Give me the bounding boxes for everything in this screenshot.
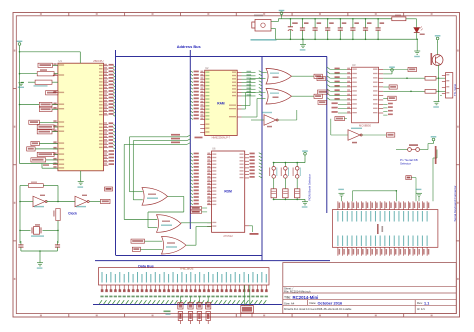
global label HALT <box>37 130 58 134</box>
ground above Pi connector left <box>338 189 344 202</box>
wires ACIA lower right address lines <box>383 103 393 115</box>
wires RAM data out to bus entries <box>242 71 263 96</box>
power symbol VCC at input <box>281 15 283 17</box>
svg-text:KiCad E.D.A. kicad 4.0.4+e1-6: KiCad E.D.A. kicad 4.0.4+e1-6308~38~ubun… <box>284 308 352 311</box>
svg-text:ROM: ROM <box>224 190 232 194</box>
wire VCC to CPU pin 11 <box>19 48 81 63</box>
wire ACIA TX top right <box>383 67 416 71</box>
svg-text:1.1: 1.1 <box>424 302 429 306</box>
labels D0-D7 ROM with bus entries <box>250 153 263 178</box>
global label WR <box>27 147 58 151</box>
connector P5 FTDI power <box>241 306 254 317</box>
global label M1 <box>29 120 58 124</box>
svg-text:U3: U3 <box>352 63 356 67</box>
wire ACIA RX to R5 <box>383 77 425 79</box>
wire U4C output loop to U4D <box>148 196 184 227</box>
global label WP below ACIA <box>335 117 347 121</box>
global label NMI <box>39 107 58 111</box>
bus: ring bottom <box>116 255 262 257</box>
resistor R3 reset pullup <box>19 69 58 76</box>
wire RAM OE <box>242 93 266 110</box>
svg-text:Rev:: Rev: <box>417 301 423 305</box>
ground left of reset circuit <box>18 82 24 88</box>
resistor R5 serial <box>425 76 446 80</box>
svg-text:ROM Bank Selector: ROM Bank Selector <box>307 174 311 201</box>
wire VCC distribution left column <box>19 52 21 164</box>
svg-text:File: RC2014-Mini.sch: File: RC2014-Mini.sch <box>284 289 311 293</box>
supervisor DS1233 D2 <box>28 80 58 87</box>
wire Q1 emitter down <box>438 65 440 102</box>
wire ACIA TX data to R6 <box>383 91 425 93</box>
global label MREQ at U7A <box>131 239 162 243</box>
inverter U5F 74HCT04 <box>251 110 297 127</box>
power symbol VCC rom bank <box>304 155 306 157</box>
wires selector to Pi connector <box>428 144 437 202</box>
global label CLK input <box>46 91 58 95</box>
resistor R7 vertical clock <box>19 202 100 232</box>
inverter U5B 74HCT04 <box>75 195 89 208</box>
power flag VCC top left <box>19 46 21 48</box>
and-gate U7A 74LS08 <box>162 236 187 254</box>
IC U2 RAM HM62256 <box>200 66 241 140</box>
global label VB <box>406 176 416 191</box>
svg-text:TTL Serial: TTL Serial <box>453 84 457 96</box>
wire U7A output to ROM OE <box>186 227 212 246</box>
svg-text:Title:: Title: <box>284 296 291 300</box>
svg-text:Size: A4: Size: A4 <box>284 301 295 305</box>
power symbol VCC ACIA <box>383 67 395 74</box>
global label RD at U4A output <box>314 74 322 78</box>
svg-text:U1: U1 <box>59 59 63 63</box>
svg-text:Date:: Date: <box>310 301 317 305</box>
wire ROM pin 22 to label <box>249 226 259 235</box>
svg-text:October 2016: October 2016 <box>318 301 343 306</box>
svg-text:HM62256ALP-7: HM62256ALP-7 <box>212 136 231 140</box>
or-gate U4D 74LS32 decode <box>157 215 182 233</box>
labels D0-D7 ACIA with bus entries <box>327 67 347 100</box>
ground above Pi connector right <box>416 189 422 202</box>
global label page select <box>105 187 113 191</box>
IC U1 Z80 CPU <box>53 59 108 171</box>
labels A14 A15 to ROM bank selector <box>191 206 208 213</box>
or-gate U4B 74LS32 <box>266 89 314 105</box>
bus entries P1 to bottom bus <box>99 296 268 305</box>
wire clock oscillator loop <box>19 186 75 231</box>
svg-text:RAM: RAM <box>217 102 225 106</box>
svg-text:Selector: Selector <box>400 161 411 165</box>
labels D7-D0 on CPU data pins with bus entries <box>109 122 116 149</box>
capacitor C2 clock <box>55 230 60 251</box>
global label MREQ left of bus <box>318 90 329 94</box>
wire BUSRQ BUSACK pullups <box>20 164 58 169</box>
wire RAM CS to decode gates <box>242 79 266 106</box>
ground serial <box>433 96 442 108</box>
global label IORQ <box>31 158 58 162</box>
global label CLK ACIA <box>383 85 397 89</box>
svg-text:THE_BUS: THE_BUS <box>180 266 194 270</box>
global label RTS ACIA <box>383 96 396 100</box>
global label WR at U4B output <box>314 94 322 98</box>
wire A15 to decoder <box>124 137 202 220</box>
labels A0-A15 ROM with bus entries <box>190 153 199 205</box>
or-gate U4A 74LS32 <box>262 69 314 85</box>
ground clock circuit <box>37 263 43 269</box>
svg-text:U6: U6 <box>212 147 216 151</box>
bus: bottom bus below backplane connector <box>93 304 282 306</box>
LED D1 <box>414 26 425 51</box>
ground below CPU <box>78 171 84 188</box>
capacitors C2-C8 decoupling <box>300 18 384 40</box>
capacitor C10 electrolytic <box>288 18 298 40</box>
ground rom bank selector <box>302 202 308 208</box>
svg-text:RC2014-Mini: RC2014-Mini <box>293 295 319 300</box>
wire clock caps to ground <box>21 250 58 263</box>
global label RD at U7A <box>132 247 162 251</box>
svg-text:Z80CPU: Z80CPU <box>93 59 103 63</box>
bus: Data Bus to backplane <box>95 260 330 262</box>
labels near P2 <box>164 311 171 315</box>
wire RAM WE <box>242 99 266 118</box>
labels on CPU control pins <box>109 150 114 165</box>
bus: right vertical (ACIA side) <box>326 57 328 214</box>
resistor R2 LED series <box>392 15 417 27</box>
power symbol VCC above Q1 <box>437 40 439 42</box>
wire A13 to decoder <box>130 134 191 192</box>
resistor R6 serial <box>425 90 446 94</box>
global label RESET <box>38 63 58 67</box>
global label RFSH <box>37 125 58 129</box>
labels A0-A14 RAM with bus entries <box>190 71 199 120</box>
global label RD <box>31 141 58 145</box>
inverter U5A 74HCT04 <box>33 195 47 208</box>
crystal X1 7.3728MHz <box>31 224 44 237</box>
global label CLK output <box>101 199 111 203</box>
wire U4D output to ROM CE <box>181 222 212 224</box>
ground power input <box>300 39 418 51</box>
resistor R1 clock feedback <box>20 182 58 188</box>
labels RS CS E ACIA lower left <box>332 102 347 113</box>
svg-text:Id: 1/1: Id: 1/1 <box>417 307 425 311</box>
bus: Address Bus top horizontal <box>116 56 328 58</box>
wire A14 to decoder <box>133 138 190 200</box>
or-gate U4C 74LS32 decode <box>142 188 168 206</box>
IC U6 ROM 27C512 <box>207 147 249 238</box>
transistor Q1 2N3904 <box>431 42 444 65</box>
bus: middle vertical (RAM/ROM side) <box>189 50 191 229</box>
labels A15-A0 on CPU address pins with bus entries <box>109 64 116 117</box>
wire GND rail <box>276 38 418 40</box>
connector J1 Raspberry Pi GPIO <box>332 201 438 256</box>
bus: left vertical (CPU side) <box>115 50 117 256</box>
global label CTS <box>386 133 394 137</box>
title block <box>283 263 457 314</box>
svg-text:27C512: 27C512 <box>223 234 233 238</box>
svg-text:MC68B50: MC68B50 <box>359 123 371 127</box>
jumpers JP1 JP2 JP3 rom bank selector <box>269 162 301 189</box>
connectors P2 P3 P4 below border <box>178 297 211 325</box>
capacitor C1 clock <box>18 230 23 251</box>
inverter U5C 74HCT04 <box>331 119 387 144</box>
resistors R9 R10 R11 rom bank pulldowns <box>271 189 300 200</box>
svg-text:U2: U2 <box>205 66 209 70</box>
svg-text:Serial Keyboard Connector: Serial Keyboard Connector <box>453 185 457 221</box>
global label MREQ <box>37 152 58 156</box>
global label INT <box>19 102 58 106</box>
wires above Pi connector <box>353 190 417 201</box>
wire VCC rail top <box>278 17 391 19</box>
ground LED <box>414 51 420 57</box>
wire rom bank top rail <box>273 158 305 163</box>
jumper JP4 selector <box>396 144 428 151</box>
label Pi / Serial KB Selector <box>400 158 418 166</box>
connector P1 backplane bus <box>99 268 270 292</box>
global label WR left of bus <box>318 100 327 104</box>
svg-text:Clock: Clock <box>68 211 77 215</box>
wire rom bank bottom rail to ground <box>273 199 305 201</box>
connector P6 serial keyboard <box>442 73 453 98</box>
wires P1 power pins down <box>245 285 250 306</box>
bus: right-middle vertical (data) <box>261 57 263 261</box>
IC U3 ACIA MC68B50 <box>347 63 383 128</box>
global label RD left of bus <box>317 77 326 81</box>
power symbol VCC selector <box>433 141 435 143</box>
connector CON1 barrel jack <box>251 15 279 41</box>
svg-text:Address Bus: Address Bus <box>177 44 201 49</box>
